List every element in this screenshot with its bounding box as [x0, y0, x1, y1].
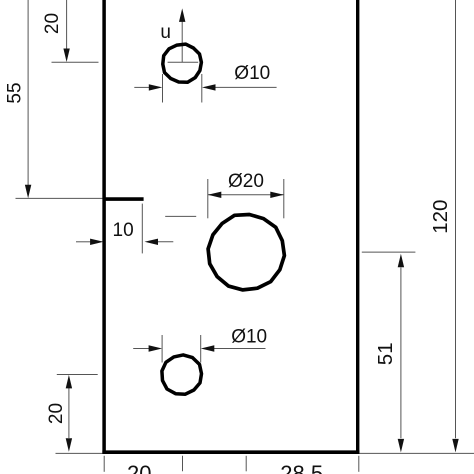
svg-text:51: 51	[374, 342, 397, 365]
svg-text:10: 10	[113, 220, 134, 241]
svg-text:20: 20	[42, 13, 63, 34]
svg-text:28.5: 28.5	[280, 461, 323, 474]
svg-text:Ø20: Ø20	[228, 171, 264, 192]
svg-text:20: 20	[127, 461, 151, 474]
svg-text:120: 120	[429, 200, 452, 234]
svg-text:Ø10: Ø10	[234, 63, 270, 84]
svg-text:20: 20	[46, 403, 67, 424]
svg-text:u: u	[160, 22, 171, 43]
svg-text:55: 55	[4, 82, 25, 103]
svg-text:Ø10: Ø10	[231, 327, 267, 348]
